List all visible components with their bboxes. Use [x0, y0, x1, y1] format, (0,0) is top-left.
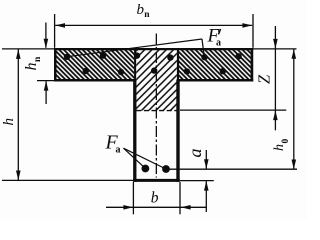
flange right edge	[251, 48, 254, 82]
dimension a top arrow	[205, 150, 207, 169]
centerline (dash-dot)	[155, 34, 157, 178]
label Z (rotated)	[255, 74, 274, 84]
dimension bn extension left	[54, 14, 56, 48]
flange bottom edge right part	[177, 79, 254, 82]
extension line break level right	[180, 109, 286, 111]
rebar dots flange bottom row	[83, 67, 226, 75]
section break dashed line	[136, 110, 177, 112]
extension line web bottom right	[180, 180, 214, 182]
dimension h line	[17, 50, 19, 181]
svg-text:h: h	[1, 118, 17, 126]
leader Fa branch 2	[124, 148, 167, 169]
svg-text:b: b	[137, 2, 145, 18]
dimension b extension left	[132, 182, 134, 214]
leader F'a line A	[70, 39, 202, 56]
dimension Z line	[274, 26, 276, 130]
leader F'a line B	[202, 39, 205, 59]
dimension hn bottom arrow	[45, 81, 47, 104]
svg-text:Z: Z	[255, 74, 274, 84]
flange hatch right	[179, 50, 251, 79]
svg-text:a: a	[116, 145, 121, 156]
extension line flange bottom left	[37, 80, 54, 82]
svg-text:a: a	[216, 37, 221, 48]
b arrow right (pointing left)	[181, 205, 191, 210]
svg-text:0: 0	[281, 139, 291, 144]
dimension hn top arrow	[45, 23, 47, 48]
flange hatch left	[57, 50, 135, 79]
extension line flange top to right margin	[253, 48, 297, 50]
leader Fa branch 1	[124, 148, 146, 168]
extension line flange top to left margin	[2, 48, 55, 50]
bn arrow left	[55, 23, 65, 28]
web bottom edge	[133, 179, 180, 182]
svg-text:h: h	[23, 63, 40, 71]
svg-text:h: h	[272, 144, 287, 151]
svg-text:n: n	[144, 10, 150, 20]
b arrow left (pointing right)	[123, 205, 133, 210]
dimension bn line	[55, 24, 252, 26]
rebar dots flange top row	[64, 52, 242, 60]
label a (rotated)	[185, 149, 205, 158]
flange left edge	[54, 48, 57, 82]
dimension b extension right	[179, 182, 181, 214]
svg-text:a: a	[185, 149, 205, 158]
web right edge upper	[177, 50, 179, 80]
svg-text:b: b	[151, 190, 159, 207]
dimension b line	[106, 206, 207, 208]
extension line web bottom to left margin	[2, 179, 133, 181]
bn arrow right	[242, 23, 252, 28]
dimension h0 line	[293, 49, 295, 169]
rebar dots web Fa	[142, 165, 170, 173]
web right edge lower	[176, 80, 179, 182]
dimension bn extension right	[252, 14, 254, 48]
label h (rotated)	[1, 118, 17, 126]
web hatch	[136, 50, 177, 111]
web left edge lower	[133, 80, 136, 182]
flange bottom edge left part	[54, 79, 136, 82]
svg-text:n: n	[33, 56, 43, 62]
flange top edge	[54, 48, 253, 50]
extension line bar level right	[169, 168, 298, 170]
label h0 (rotated)	[272, 139, 291, 152]
dimension a bottom arrow	[205, 181, 207, 212]
web left edge upper	[134, 50, 136, 80]
label hn (rotated)	[23, 56, 43, 71]
